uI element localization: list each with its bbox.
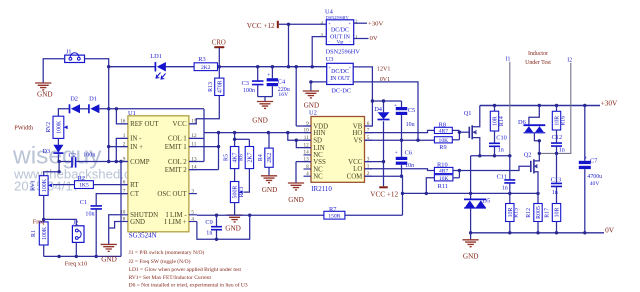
svg-text:SD: SD: [313, 138, 322, 145]
wire U2 HO to R8: [365, 130, 435, 132]
svg-text:VCC: VCC: [348, 159, 363, 166]
diode D2: [70, 96, 81, 114]
node I2 terminal: [567, 57, 572, 63]
capacitor C6 10n: [395, 140, 414, 178]
U2 pin 2 COM: [347, 171, 372, 181]
U2 pin 12 LIN: [304, 142, 325, 152]
svg-text:10n: 10n: [85, 211, 94, 217]
wire R10 R11 join to Q2 gate: [453, 166, 531, 178]
svg-text:VCC: VCC: [173, 121, 188, 128]
svg-text:COL 1: COL 1: [168, 136, 187, 143]
capacitor C7 4700u 40V: [579, 106, 602, 233]
ground under R4: [261, 176, 277, 194]
svg-text:16: 16: [120, 119, 126, 125]
svg-text:1n: 1n: [206, 230, 212, 236]
wire U2 COM down to source rail: [365, 176, 405, 215]
wire Q2 drain node to I2 and C12: [538, 139, 541, 155]
svg-text:U2: U2: [309, 110, 317, 117]
transistor Q2 MOSFET: [524, 141, 540, 204]
node CRO test point: [212, 39, 226, 47]
svg-text:10: 10: [304, 127, 310, 133]
potentiometer RV2 100K: [46, 116, 68, 138]
svg-text:C6: C6: [405, 149, 412, 156]
svg-text:COL 2: COL 2: [168, 159, 187, 166]
wire J2 top to RV1/R1 junction: [44, 219, 77, 225]
wire LD1 to R3: [166, 66, 194, 68]
resistor R17 10R: [544, 204, 560, 233]
resistor R6 2K7: [239, 147, 254, 169]
wire COL2 stub: [189, 161, 204, 163]
wire I1 to switch node: [509, 62, 511, 156]
svg-text:14: 14: [304, 150, 310, 156]
svg-text:3: 3: [191, 188, 194, 194]
svg-text:DC/DC: DC/DC: [331, 69, 349, 75]
ground under C3 C4: [252, 102, 273, 125]
svg-text:DSN2596HV: DSN2596HV: [326, 49, 361, 56]
capacitor C1 10n: [80, 199, 102, 217]
svg-text:I LIM +: I LIM +: [164, 219, 186, 226]
node VCC +12 at U2: [370, 187, 398, 198]
svg-text:VCC +12: VCC +12: [247, 22, 275, 30]
svg-text:100n: 100n: [243, 88, 255, 94]
wire HIN line U1 area to U2 HIN: [204, 131, 311, 134]
svg-text:12V1: 12V1: [377, 66, 390, 72]
wire VB boot line: [372, 99, 401, 102]
svg-text:R9: R9: [439, 144, 446, 151]
U1 pin 2 IN +: [120, 141, 143, 151]
svg-text:C1: C1: [80, 199, 87, 206]
svg-text:DC-DC: DC-DC: [331, 88, 351, 95]
wire U4 +30V output: [354, 22, 367, 24]
wire R7 to COM riser: [345, 214, 403, 216]
ground at U1 GND pin: [101, 215, 120, 264]
wire RV3 bottom to ground: [234, 203, 236, 215]
svg-text:RV1: RV1: [30, 180, 36, 191]
resistor R3 2K2: [194, 56, 217, 71]
U2 pin 14 NC: [304, 150, 324, 160]
U2 pin 10 HIN: [304, 127, 326, 137]
resistor R11 10K: [434, 175, 453, 191]
svg-text:LO: LO: [353, 166, 362, 173]
wire U2 LIN tap: [295, 139, 311, 148]
wire source rail COM to Q2: [403, 192, 540, 195]
svg-text:Freq x10: Freq x10: [65, 261, 88, 268]
svg-text:4: 4: [306, 171, 309, 177]
svg-text:6: 6: [123, 179, 126, 185]
svg-text:R1: R1: [31, 230, 37, 237]
svg-text:SG3524N: SG3524N: [129, 232, 157, 240]
svg-text:GND: GND: [252, 117, 268, 125]
wire U3 0V1 output to VS line: [353, 82, 418, 140]
svg-text:R6: R6: [239, 154, 245, 161]
wire J2 bottom to bottom rail: [75, 242, 77, 256]
svg-text:Inductor: Inductor: [528, 51, 548, 57]
svg-text:NC: NC: [313, 166, 323, 173]
svg-text:2K7: 2K7: [248, 152, 254, 162]
svg-text:C7: C7: [590, 158, 598, 165]
svg-text:8: 8: [306, 164, 309, 170]
U2 pin 9 VDD: [304, 121, 329, 131]
svg-text:+30V: +30V: [368, 21, 383, 28]
svg-text:4R7: 4R7: [439, 129, 449, 135]
power supply U4 DSN2596HV: [321, 9, 361, 56]
wire switch node down to D5: [470, 156, 472, 199]
wire C3 C4 to ground: [258, 97, 273, 102]
svg-text:GND: GND: [37, 90, 53, 98]
resistor R15 10R: [506, 204, 520, 233]
svg-text:100K: 100K: [57, 120, 63, 134]
wire VCC +12 to U4 and down to rail: [279, 23, 327, 67]
svg-text:R17: R17: [544, 208, 550, 218]
svg-text:DC/DC: DC/DC: [331, 28, 349, 34]
svg-text:+: +: [267, 73, 270, 79]
wire COL1 stub: [189, 137, 204, 139]
U1 pin 10 SHUTDN: [120, 210, 158, 220]
U1 pin 4 I LIM +: [164, 216, 196, 226]
svg-text:0V: 0V: [605, 226, 615, 235]
svg-text:GND: GND: [262, 186, 278, 194]
resistor R4 2K2: [258, 133, 273, 168]
svg-text:I2: I2: [567, 57, 572, 63]
svg-text:NC: NC: [313, 174, 323, 181]
node I1 terminal: [506, 56, 511, 62]
svg-text:RT: RT: [130, 182, 139, 189]
ground under U3: [303, 91, 319, 110]
svg-text:IN OUT: IN OUT: [330, 76, 350, 82]
svg-text:5: 5: [191, 210, 194, 216]
U1 pin 11 EMIT 1: [165, 141, 197, 151]
capacitor C12 1n: [551, 130, 565, 155]
svg-text:GND: GND: [130, 219, 145, 226]
svg-text:150R: 150R: [328, 213, 340, 219]
wire R6 bottom to RV3 wiper: [243, 169, 249, 193]
wire C2 to U1 COMP pin 9: [76, 160, 128, 163]
svg-text:Var: Var: [337, 40, 344, 45]
wire R5/R6 top tie: [233, 133, 249, 147]
diode D3: [42, 138, 63, 155]
wire CRO to R13: [218, 48, 220, 78]
wire REF OUT pin 16 elbow: [116, 109, 128, 124]
U2 pin 11 SD: [304, 135, 323, 145]
svg-text:+30V: +30V: [601, 98, 618, 107]
wire VS line: [365, 139, 435, 142]
svg-text:I1: I1: [506, 56, 511, 62]
svg-text:0V: 0V: [370, 35, 378, 42]
svg-text:7: 7: [123, 188, 126, 194]
wire RV1 bottom to R1: [42, 195, 45, 222]
U1 pin 8 GND: [120, 216, 145, 226]
wire EMIT1/EMIT2 riser: [189, 133, 220, 170]
svg-text:COMP: COMP: [130, 159, 150, 166]
svg-text:RV2: RV2: [46, 122, 52, 133]
svg-text:EMIT 1: EMIT 1: [165, 144, 187, 151]
diode D5: [464, 198, 490, 233]
svg-text:IR2110: IR2110: [311, 185, 332, 193]
svg-text:VS: VS: [353, 138, 362, 145]
capacitor C4 220u 16V: [267, 67, 290, 98]
svg-text:1n: 1n: [559, 148, 565, 154]
svg-text:0V1: 0V1: [380, 77, 390, 83]
svg-text:6: 6: [367, 121, 370, 127]
wire J1 right lead down to +12 rail and on to IN+ / COMP node: [85, 59, 111, 163]
U1 pin 7 CT: [120, 188, 140, 198]
svg-text:10K: 10K: [439, 176, 449, 182]
wire R1 bottom to bottom rail: [43, 245, 45, 256]
svg-text:GND: GND: [463, 252, 479, 260]
svg-text:1n: 1n: [502, 185, 508, 191]
svg-text:HIN: HIN: [313, 130, 325, 137]
resistor R13 470R: [208, 78, 224, 95]
wire R4 to ground: [268, 167, 270, 176]
svg-text:PWidth: PWidth: [14, 125, 34, 132]
wire U3 12V1 output to U2 VB: [353, 67, 374, 126]
svg-text:GND: GND: [288, 196, 304, 204]
svg-text:470R: 470R: [217, 80, 223, 93]
svg-text:CRO: CRO: [212, 39, 226, 46]
U1 pin 5 I LIM -: [166, 210, 197, 220]
wire +30V rail: [480, 104, 600, 107]
U2 pin 4 NC: [304, 171, 324, 181]
wire R8 R9 join to Q1 gate: [452, 130, 469, 139]
svg-text:RV1= Set Max FET/Inductor Curr: RV1= Set Max FET/Inductor Current: [129, 275, 212, 281]
capacitor C10 1n: [489, 131, 507, 156]
U2 pin 3 VCC: [348, 156, 372, 166]
wire U2 SD from HIN line: [288, 133, 311, 141]
ground under J1: [35, 83, 52, 98]
ground under RV3: [225, 215, 242, 233]
U1 pin 16 REF OUT: [120, 119, 160, 129]
svg-text:R11: R11: [438, 183, 448, 190]
svg-text:GND: GND: [304, 102, 320, 110]
svg-text:CT: CT: [130, 191, 140, 198]
svg-text:IN -: IN -: [130, 136, 142, 143]
capacitor C3 100n: [242, 67, 264, 97]
svg-text:C3: C3: [242, 80, 249, 87]
U1 pin 12 COL 1: [168, 133, 197, 143]
svg-text:C13: C13: [551, 177, 562, 184]
capacitor C13 1n: [551, 153, 562, 203]
svg-text:R12: R12: [526, 208, 532, 218]
wire U2 VDD to +12 rail: [296, 125, 311, 127]
svg-text:16V: 16V: [278, 92, 289, 98]
resistor R9 10K: [434, 137, 452, 152]
wire U3 0V in to ground: [309, 80, 327, 91]
svg-text:R5: R5: [224, 154, 230, 161]
capacitor C5 10u: [394, 101, 415, 142]
svg-text:500R: 500R: [233, 186, 239, 199]
svg-text:2K2: 2K2: [267, 153, 273, 163]
svg-text:2K2: 2K2: [201, 65, 211, 71]
svg-text:J2 = Freq SW (toggle (N/O): J2 = Freq SW (toggle (N/O): [129, 258, 191, 265]
svg-text:U3: U3: [326, 56, 334, 63]
op-amp U1 SG3524N body: [128, 110, 189, 240]
U2 pin 13 VSS: [304, 156, 327, 166]
svg-text:100K: 100K: [42, 226, 48, 240]
svg-text:10u: 10u: [406, 122, 415, 128]
svg-text:EMIT 2: EMIT 2: [165, 167, 187, 174]
svg-text:10R: 10R: [493, 116, 499, 126]
op-amp U2 IR2110 body: [309, 110, 365, 194]
resistor R10 4R7: [434, 161, 453, 174]
U2 pin 8 NC: [304, 164, 324, 174]
wire D3 to COMP line: [57, 154, 71, 163]
resistor R8 4R7: [434, 122, 452, 135]
svg-text:C10: C10: [496, 135, 507, 142]
svg-text:C4: C4: [278, 79, 286, 86]
svg-text:1n: 1n: [552, 190, 558, 196]
svg-text:40V: 40V: [590, 181, 601, 187]
wire J1 left lead to ground: [43, 59, 64, 83]
wire +12 rail J1 to LED LD1: [109, 66, 156, 68]
svg-text:R4: R4: [258, 154, 264, 161]
wire R13 to U1 VCC pin 15: [189, 96, 219, 124]
connector J1: [65, 49, 85, 63]
svg-text:REF OUT: REF OUT: [130, 121, 159, 128]
wire COMP branch down to bottom rail: [120, 162, 122, 257]
wire R11 left to source rail: [426, 178, 434, 194]
svg-text:R16: R16: [561, 116, 567, 126]
U2 pin 1 LO: [353, 164, 372, 174]
capacitor C9 1n: [205, 215, 222, 241]
svg-text:1K5: 1K5: [79, 183, 89, 189]
potentiometer RV1 100K: [30, 176, 52, 196]
svg-text:+: +: [395, 150, 398, 156]
LED LD1: [150, 53, 166, 79]
wire U2 LO to R10: [365, 169, 435, 171]
wire RV1 wiper to R2: [53, 184, 75, 186]
U2 pin 6 VB: [353, 121, 372, 131]
wire U4 0V output: [354, 38, 369, 40]
U1 pin 15 VCC: [173, 119, 197, 129]
svg-text:LIN: LIN: [313, 145, 325, 152]
resistor R12 R005: [526, 204, 542, 233]
wire 0V rail: [469, 231, 604, 234]
diode D1: [89, 96, 100, 114]
svg-text:D1: D1: [89, 96, 97, 103]
resistor R5 4K7: [224, 147, 239, 169]
watermark: [12, 143, 149, 194]
wire U1 CT pin 7 to C1: [96, 194, 128, 206]
svg-text:GND: GND: [225, 225, 241, 233]
potentiometer RV3 500R: [230, 182, 245, 203]
svg-text:C9: C9: [205, 219, 212, 226]
svg-text:HO: HO: [352, 130, 362, 137]
svg-text:LD1: LD1: [150, 53, 162, 60]
wire IN+ pin 2 to J1 node: [109, 146, 128, 148]
wire I LIM + loop: [197, 215, 250, 239]
svg-text:IN +: IN +: [130, 144, 143, 151]
bottom rail left: [44, 255, 121, 258]
U1 pin 6 RT: [120, 179, 139, 189]
wire R3 to DC-DC rail with junctions: [218, 65, 327, 68]
svg-text:Q2: Q2: [524, 151, 532, 158]
svg-text:GND: GND: [101, 256, 117, 264]
capacitor C2 100n: [69, 152, 96, 168]
svg-text:Under Test: Under Test: [525, 60, 551, 66]
svg-text:15: 15: [191, 119, 197, 125]
U1 pin 14 EMIT 2: [165, 164, 197, 174]
svg-text:1n: 1n: [498, 147, 504, 153]
wire switch node line: [471, 154, 512, 157]
diode D4: [374, 101, 389, 120]
svg-text:100K: 100K: [42, 178, 48, 192]
U2 pin 5 VS: [353, 135, 372, 145]
resistor R7 150R: [324, 206, 345, 220]
svg-text:VSS: VSS: [313, 159, 326, 166]
diode D6: [518, 106, 545, 141]
svg-text:R14: R14: [499, 116, 505, 126]
capacitor C11 1n: [497, 156, 516, 204]
U1 pin 3 OSC OUT: [157, 188, 196, 198]
transistor Q1 MOSFET: [464, 106, 480, 156]
wire U1 I LIM - to R7 with C9 tap: [197, 214, 324, 217]
wire RV1 top to D3/COMP node: [44, 162, 61, 176]
svg-text:4R7: 4R7: [439, 169, 449, 175]
wire I2 to Q2 drain node: [539, 63, 571, 154]
legend notes: [129, 249, 248, 288]
resistor R1 100K: [31, 222, 48, 245]
svg-text:VCC +12: VCC +12: [370, 191, 398, 199]
U1 pin 13 COL 2: [168, 156, 197, 166]
svg-text:9: 9: [123, 156, 126, 162]
label Inductor Under Test: [525, 51, 551, 66]
wire R5 bottom to RV3: [234, 169, 236, 182]
svg-text:100n: 100n: [83, 152, 95, 158]
wire U2 VSS to ground: [296, 162, 311, 183]
svg-text:2: 2: [123, 141, 126, 147]
svg-text:D6 = Not installed or tried, e: D6 = Not installed or tried, experimenta…: [129, 282, 248, 289]
resistor R2 1K5: [75, 175, 94, 189]
connector J2: [72, 220, 84, 243]
svg-text:R15: R15: [514, 208, 520, 218]
wire D2 D1 row: RV2 top to U1 REF OUT: [58, 107, 204, 116]
ground under U2 VSS: [288, 183, 304, 204]
node VCC +12 supply entry: [247, 21, 278, 30]
U1 pin 9 COMP: [120, 156, 150, 166]
svg-text:OSC OUT: OSC OUT: [157, 191, 187, 198]
svg-text:D4: D4: [374, 106, 383, 113]
svg-text:D3: D3: [42, 148, 50, 155]
ground on 0V rail: [463, 233, 479, 261]
svg-text:COM: COM: [347, 174, 363, 181]
U2 pin 7 HO: [352, 127, 372, 137]
svg-text:Freq: Freq: [33, 219, 45, 226]
wire R2 to U1 RT pin 6: [93, 184, 128, 186]
svg-text:J1 = P/B switch (momentary N/O: J1 = P/B switch (momentary N/O): [129, 249, 205, 256]
wire D4 to VCC pin and VCC +12 tick: [365, 121, 386, 186]
wire C1 bottom to bottom rail: [95, 210, 98, 259]
svg-text:D2: D2: [70, 96, 78, 103]
U1 pin 1 IN -: [120, 133, 142, 143]
svg-text:C5: C5: [408, 107, 415, 114]
svg-text:LD1 = Glow when power applied: LD1 = Glow when power applied Bright und…: [129, 267, 242, 273]
svg-text:Q1: Q1: [464, 110, 472, 117]
svg-text:R3: R3: [198, 56, 205, 63]
wire IN- pin 1 elbow down to COMP line: [116, 138, 128, 161]
svg-text:R13: R13: [208, 82, 214, 92]
resistor R16 10R: [552, 106, 566, 131]
svg-text:10R: 10R: [555, 208, 561, 218]
svg-text:4: 4: [191, 216, 194, 222]
power supply U3 DC-DC: [326, 56, 354, 95]
svg-text:10K: 10K: [439, 138, 449, 144]
wire U4 pin3 to U3 input: [312, 37, 326, 67]
svg-text:4700u: 4700u: [587, 174, 602, 180]
svg-text:10: 10: [120, 210, 126, 216]
ground above U2: [295, 67, 297, 126]
svg-text:1: 1: [123, 133, 126, 139]
wire COL1/COL2 riser to +12 rail: [203, 109, 205, 162]
